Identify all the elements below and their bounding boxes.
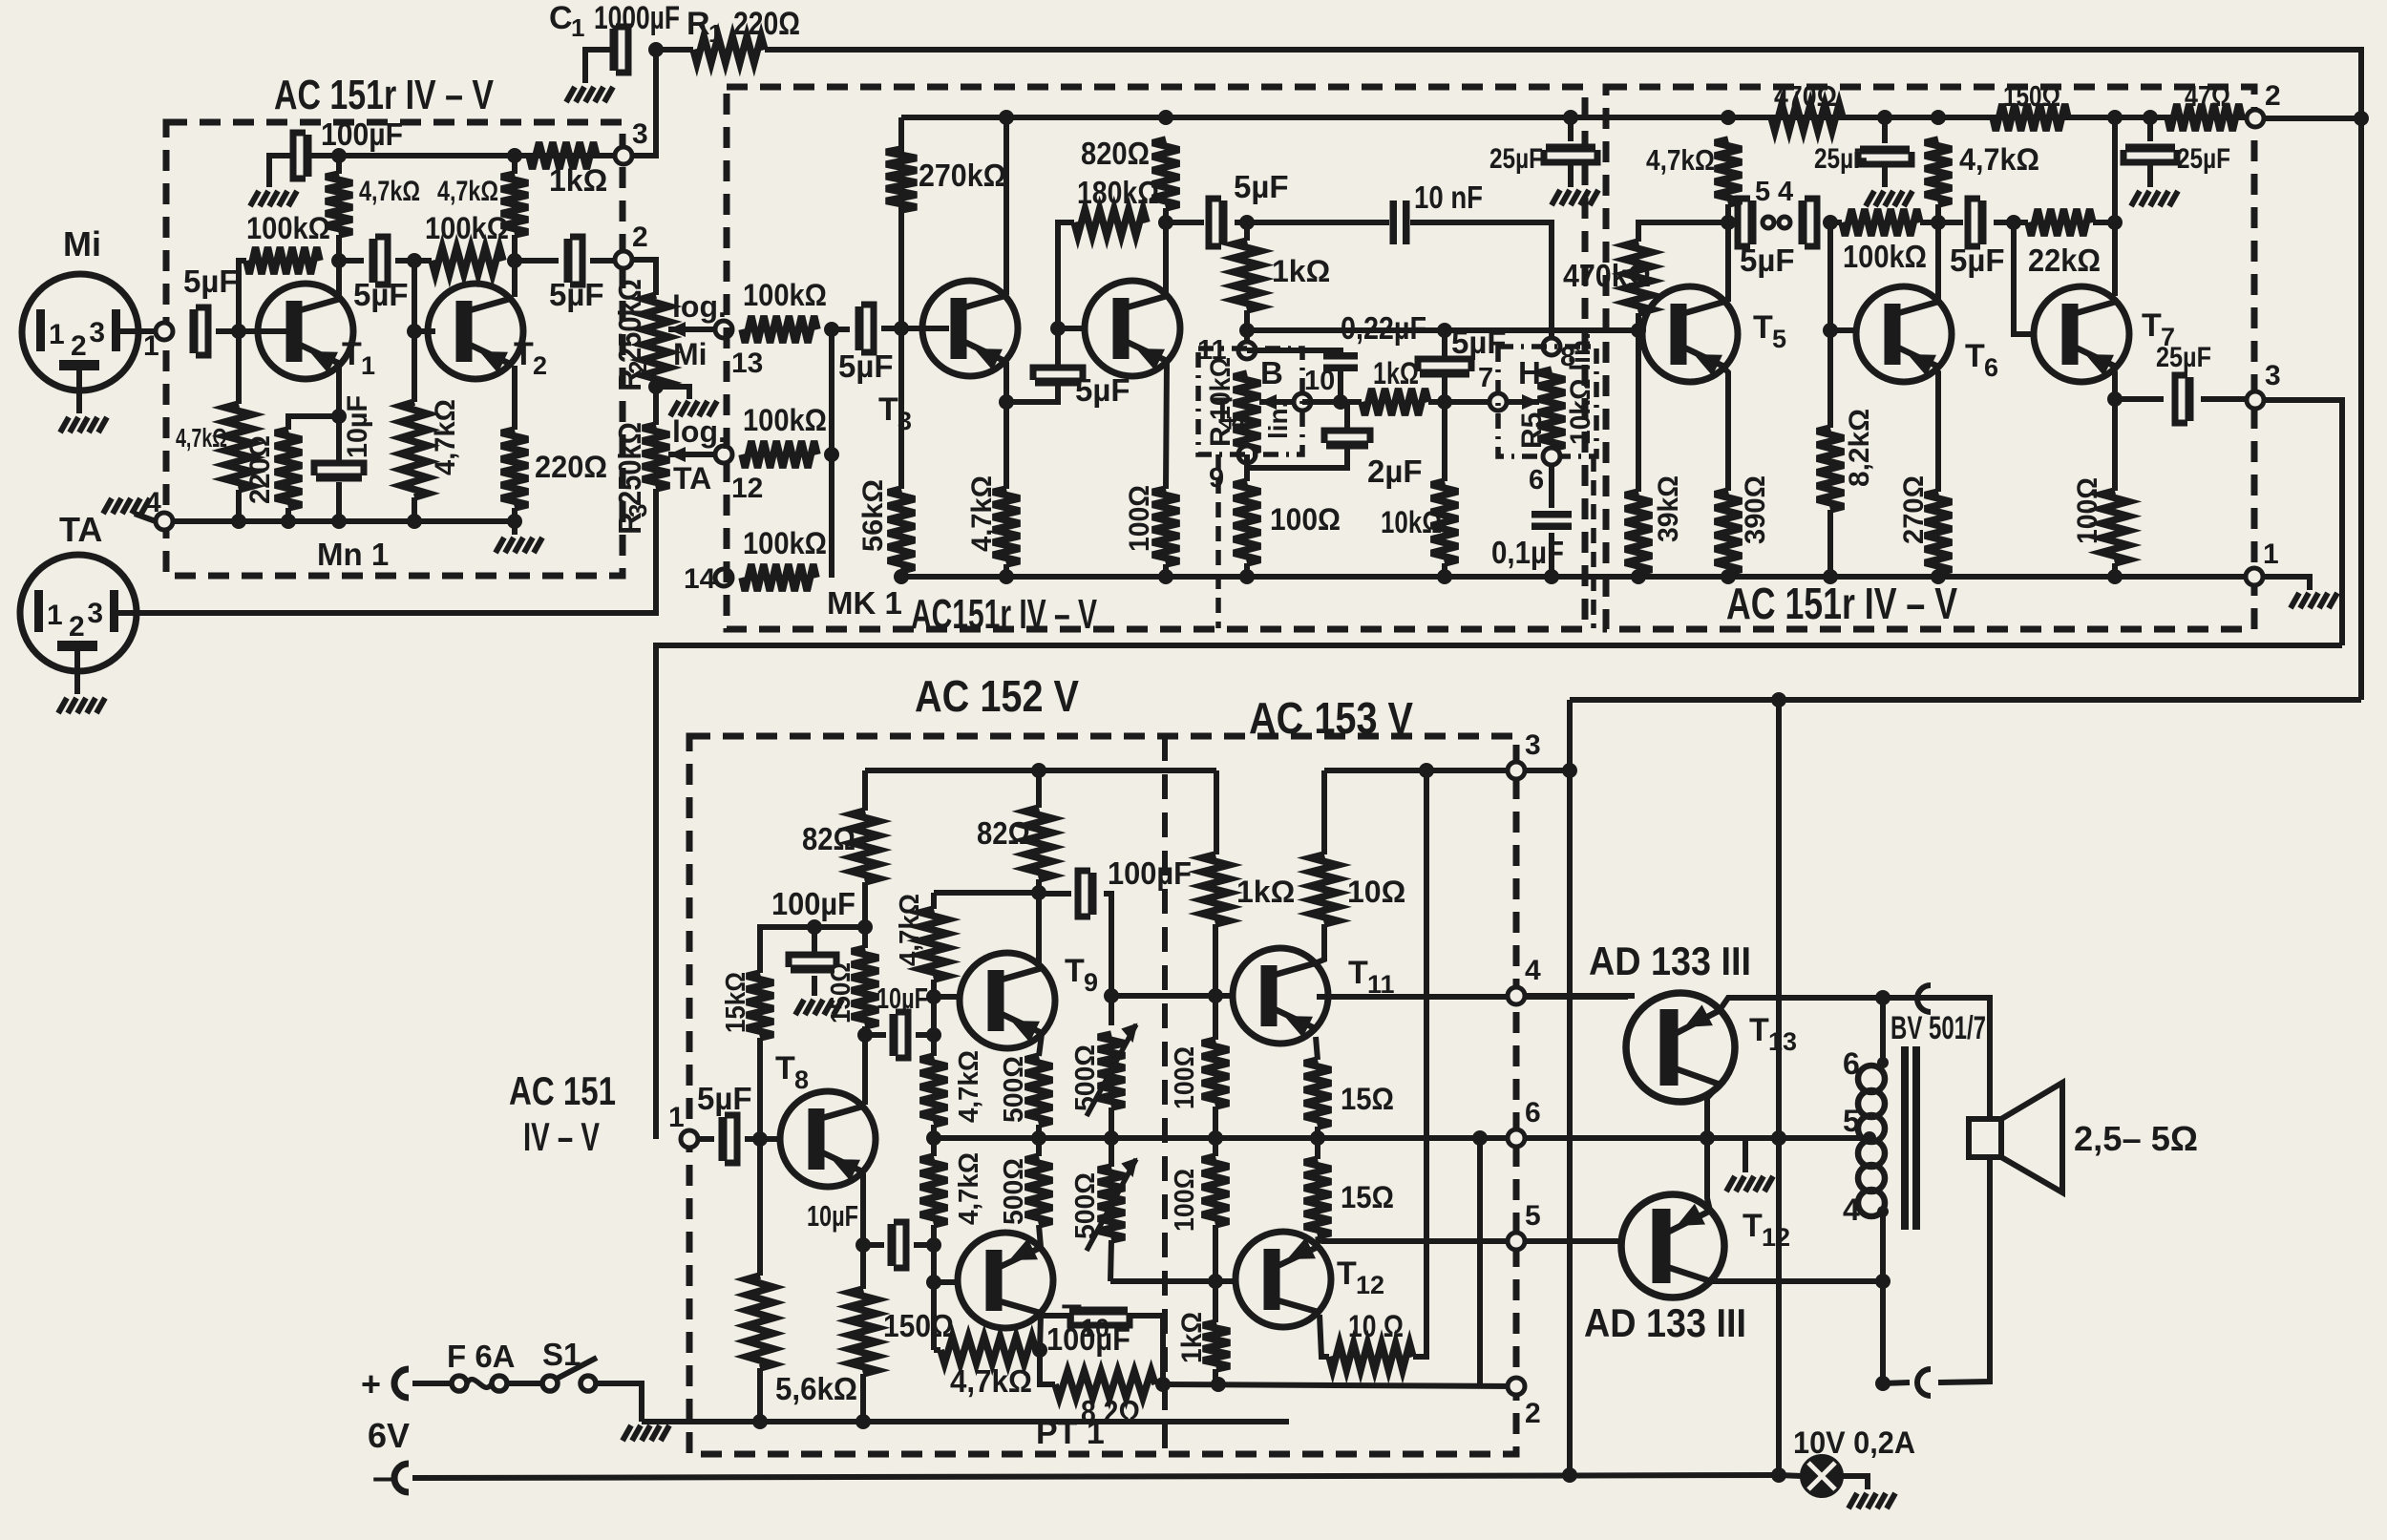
wire 1k tone bottom — [1244, 310, 1250, 350]
node pin 4 — [1779, 217, 1790, 228]
svg-text:100kΩ: 100kΩ — [743, 526, 827, 560]
svg-text:3: 3 — [898, 407, 912, 435]
junction rail 220R T2 — [507, 514, 522, 529]
wire 4k7 to center line — [931, 1125, 937, 1138]
resistor 4,7k T2 base-gnd — [401, 402, 428, 497]
node 3 (box1) — [615, 147, 632, 164]
wiper R4 — [1259, 399, 1295, 405]
node 1 PT1 — [681, 1130, 698, 1148]
wire T4 base wire — [1058, 326, 1085, 331]
junction right edge node2 — [2354, 111, 2369, 126]
wire input cap to T1 base — [216, 328, 292, 334]
resistor 500R T9 — [1025, 1056, 1052, 1125]
wire 25uF2 stem — [1882, 117, 1888, 143]
junction T7 base column top — [2006, 215, 2021, 230]
svg-text:T: T — [878, 391, 898, 428]
svg-text:5: 5 — [1525, 1200, 1541, 1232]
resistor 82R right — [1025, 808, 1052, 879]
resistor 100R upper driver — [1202, 1040, 1229, 1107]
wire PT1 top rail right — [1324, 768, 1570, 773]
wire 100R2 bottom — [1213, 1225, 1218, 1281]
wire trim1 bottom lead — [1109, 1108, 1114, 1138]
wire 4k7 bottom left lead — [934, 1347, 940, 1353]
capacitor 10uF T8-T9 — [890, 1014, 898, 1056]
svg-text:AC 151r IV – V: AC 151r IV – V — [1726, 579, 1957, 628]
junction rail 10R2 riser — [1419, 763, 1434, 778]
connector Mi (DIN) ground — [60, 417, 107, 432]
wire node4 ground stem — [135, 514, 156, 521]
node 6 PT1 — [1508, 1129, 1525, 1147]
resistor 10R lower — [1329, 1343, 1413, 1370]
svg-text:14: 14 — [684, 563, 716, 595]
wire T9 base col top — [934, 890, 1039, 896]
svg-text:10µF: 10µF — [807, 1199, 858, 1233]
svg-text:15Ω: 15Ω — [1341, 1082, 1394, 1116]
wire node5 to T12out base — [1525, 1238, 1623, 1244]
svg-text:100µF: 100µF — [771, 886, 856, 921]
svg-text:100kΩ: 100kΩ — [743, 403, 827, 437]
wire cap to 22k — [1994, 220, 2028, 225]
svg-text:T: T — [1348, 955, 1368, 991]
wire 100uF left lead — [269, 156, 295, 187]
wire 220R to rail — [512, 508, 518, 521]
junction T1 collector / row273 — [331, 253, 347, 268]
wire T5 collector — [1725, 222, 1731, 302]
junction rail 820R — [1158, 110, 1173, 125]
resistor 15R lower — [1304, 1159, 1331, 1236]
svg-text:220Ω: 220Ω — [244, 435, 276, 504]
junction bottom rail 0.1uF — [1544, 569, 1559, 584]
resistor 1k bass-treble — [1362, 389, 1428, 415]
wire T10 base wire — [934, 1279, 961, 1285]
junction lamp line crossing mid — [1771, 1130, 1786, 1146]
svg-text:820Ω: 820Ω — [1081, 136, 1150, 171]
svg-text:T: T — [1753, 309, 1773, 346]
svg-text:2µF: 2µF — [1367, 454, 1423, 489]
junction bottom rail 100R T7 — [2107, 569, 2123, 584]
svg-text:15Ω: 15Ω — [1341, 1180, 1394, 1214]
junction mix node13 — [824, 322, 839, 337]
svg-text:100Ω: 100Ω — [1170, 1169, 1200, 1232]
junction 10uF2 left — [856, 1237, 871, 1253]
resistor 4,7k T1 collector — [326, 174, 352, 235]
wire speaker loop top — [1938, 998, 1990, 1119]
connector TA (DIN) ground — [58, 698, 105, 713]
svg-text:B: B — [1260, 355, 1283, 390]
resistor 4,7k T2 collector — [501, 174, 528, 235]
node 11 — [1238, 342, 1256, 359]
svg-text:C: C — [549, 0, 573, 36]
junction rail 25uF2 — [1877, 110, 1892, 125]
wire T7 base column — [2014, 222, 2036, 334]
junction 10uF2 tap — [926, 1237, 941, 1253]
svg-text:5µF: 5µF — [549, 277, 604, 312]
junction pin4 riser — [1875, 1274, 1891, 1289]
svg-text:1kΩ: 1kΩ — [1176, 1312, 1208, 1363]
wire T6 emitter — [1934, 369, 1938, 492]
svg-text:3: 3 — [87, 598, 103, 629]
svg-text:T: T — [1749, 1012, 1769, 1048]
node 10 — [1294, 393, 1311, 411]
wire Mi pin3 to node 1 — [118, 328, 159, 334]
ground 25uF MK1 — [1552, 190, 1598, 205]
junction T2 collector row — [507, 253, 522, 268]
svg-text:10µF: 10µF — [342, 395, 373, 458]
svg-text:3: 3 — [89, 317, 105, 348]
resistor R1 220R — [693, 36, 765, 63]
resistor 470k T5 base — [1625, 242, 1652, 313]
wire 15R2 to center — [1315, 1138, 1320, 1159]
junction T6 collector node — [1931, 215, 1946, 230]
node pin 5 — [1763, 217, 1774, 228]
resistor 820R T4 collector — [1152, 139, 1179, 208]
resistor 470R rail — [1771, 104, 1843, 131]
transformer primary coil — [1858, 1065, 1885, 1216]
svg-text:AC 152 V: AC 152 V — [915, 671, 1079, 721]
junction T11 base — [1208, 988, 1223, 1003]
svg-text:4,7kΩ: 4,7kΩ — [437, 176, 498, 207]
junction pin4 bottom — [1875, 1376, 1891, 1391]
wire T6 base column — [1827, 222, 1833, 428]
wire 25uF stem — [1568, 117, 1574, 141]
capacitor 5uF pin4 — [1799, 200, 1807, 244]
wire T9 base column — [931, 893, 937, 909]
svg-text:100Ω: 100Ω — [1270, 502, 1341, 537]
svg-text:BV 501/7: BV 501/7 — [1891, 1010, 1986, 1046]
resistor 1k box1 — [529, 142, 597, 169]
node 3 PT1 — [1508, 762, 1525, 779]
wire right box rail — [1585, 115, 2254, 120]
svg-text:1000µF: 1000µF — [594, 0, 680, 36]
svg-text:500Ω: 500Ω — [1070, 1044, 1101, 1111]
svg-text:7: 7 — [1478, 363, 1493, 393]
capacitor 5uF pin5 — [1748, 200, 1757, 244]
ground below C1 — [566, 87, 613, 102]
screen line below H box — [1591, 456, 1596, 628]
screen line below B box — [1215, 454, 1221, 628]
capacitor C1 1000uF — [610, 29, 619, 71]
capacitor 10uF T1 emitter — [316, 474, 362, 482]
wire T12out emitter up — [1707, 1138, 1710, 1211]
resistor 100R T4 emitter — [1152, 489, 1179, 564]
wire row273 T1coll to cap — [339, 258, 364, 264]
wire 270R to rail — [1935, 573, 1941, 577]
svg-text:1: 1 — [47, 600, 63, 631]
transistor T12 AD133 — [1621, 1194, 1724, 1297]
svg-text:T: T — [2142, 307, 2162, 344]
wire fb riser — [1477, 1138, 1483, 1385]
junction T2 base node top — [407, 253, 422, 268]
wire node11 to 0.22uF — [1247, 350, 1341, 353]
wire 5uF to T8 base — [745, 1136, 780, 1142]
svg-text:470Ω: 470Ω — [1774, 79, 1837, 113]
junction rail 5k6 — [752, 1414, 768, 1429]
svg-text:1kΩ: 1kΩ — [549, 163, 607, 198]
wire T7 emitter — [2111, 369, 2115, 491]
svg-text:100µF: 100µF — [321, 116, 403, 152]
node 1 (box1 input) — [156, 323, 173, 340]
wire lamp supply line — [1776, 700, 1782, 1475]
node 1 right box — [2246, 568, 2263, 585]
wire T7 collector — [2112, 117, 2118, 296]
wire 25uF2 gnd — [1882, 166, 1888, 187]
resistor 150R T8 collector — [852, 948, 878, 1026]
wire T6 base wire — [1830, 327, 1856, 333]
capacitor 2uF bass — [1326, 441, 1368, 450]
wire T9 base wire — [934, 994, 961, 1000]
wire 10R2 riser — [1413, 770, 1426, 1357]
wire 100uF stem — [812, 927, 817, 952]
junction center line fb riser — [1472, 1130, 1488, 1146]
junction R2 bottom — [648, 379, 664, 394]
wire trim2 top — [1109, 1138, 1114, 1167]
transistor T3 — [922, 281, 1018, 376]
wire 100uF2 left — [1039, 891, 1071, 897]
ground node1 right box — [2291, 593, 2337, 608]
wire 5,6k column — [757, 1139, 763, 1276]
svg-text:15kΩ: 15kΩ — [721, 972, 751, 1033]
junction T7 collector node — [2107, 215, 2123, 230]
svg-text:4,7kΩ: 4,7kΩ — [954, 1050, 984, 1123]
junction T3 emitter / 5uF — [999, 394, 1014, 410]
wire 100k to T6 coll node — [1920, 220, 1963, 225]
transformer core — [1905, 1046, 1916, 1230]
transistor T4 — [1085, 281, 1180, 376]
resistor 100R T7 emitter — [2102, 491, 2128, 563]
wire node10 line — [1302, 399, 1362, 405]
wire trim2 bottom — [1110, 1240, 1111, 1281]
wire C1 junction to R1 — [656, 47, 693, 53]
svg-text:lin.: lin. — [1263, 401, 1293, 439]
svg-text:T: T — [1743, 1208, 1763, 1244]
wire T9 base column mid — [931, 980, 937, 1056]
wire 25uF to gnd — [1568, 164, 1574, 187]
junction 5uF NF tap — [1437, 323, 1452, 338]
capacitor 25uF rail mid — [1860, 146, 1910, 155]
transistor T2 — [428, 284, 523, 379]
svg-text:1kΩ: 1kΩ — [1373, 356, 1419, 390]
capacitor 5uF PT1 input — [719, 1117, 728, 1161]
wire 500R T10 to emitter — [1039, 1225, 1041, 1247]
wire 39k column — [1636, 330, 1641, 492]
resistor 500R T10 — [1025, 1156, 1052, 1225]
wire T3 collector — [1003, 117, 1009, 295]
svg-text:13: 13 — [731, 348, 763, 379]
wire out cap to node 2 — [590, 258, 619, 264]
wire 1k tone — [1244, 222, 1250, 241]
capacitor 100uF T9 — [1088, 873, 1097, 915]
wire mix to 5uF — [832, 327, 850, 332]
potentiometer R5 10k lin — [1538, 369, 1565, 449]
svg-text:T: T — [342, 336, 362, 372]
wire 10uF to rail — [336, 482, 342, 521]
svg-text:4,7kΩ: 4,7kΩ — [359, 176, 420, 207]
svg-text:2: 2 — [632, 222, 648, 253]
svg-text:3: 3 — [1525, 729, 1541, 761]
svg-text:Mi: Mi — [63, 224, 101, 264]
wire 150R to bottom rail — [860, 1374, 866, 1422]
ground 100uF T8 — [795, 1000, 842, 1015]
resistor 15R upper — [1304, 1060, 1331, 1127]
svg-text:5: 5 — [1772, 325, 1786, 353]
junction lamp line on line B — [1771, 692, 1786, 707]
svg-text:5µF: 5µF — [1234, 169, 1289, 204]
junction T2 base node — [407, 324, 422, 339]
junction rail line B — [1562, 763, 1577, 778]
svg-text:270kΩ: 270kΩ — [919, 158, 1006, 193]
svg-text:100µF: 100µF — [1046, 1321, 1130, 1357]
junction top row at T1 — [331, 148, 347, 163]
svg-text:5µF: 5µF — [697, 1081, 752, 1116]
svg-text:9: 9 — [1084, 968, 1098, 997]
svg-text:25µF: 25µF — [2177, 143, 2230, 175]
fuse F 6A — [452, 1376, 467, 1391]
wire midline ground stub — [1743, 1138, 1748, 1172]
svg-text:4,7kΩ: 4,7kΩ — [954, 1152, 984, 1225]
svg-text:270Ω: 270Ω — [1898, 475, 1930, 544]
resistor 100R lower driver — [1202, 1156, 1229, 1225]
wire 8k2 to rail — [1827, 510, 1833, 577]
junction bottom rail 39k — [1631, 569, 1646, 584]
svg-text:5µF: 5µF — [838, 348, 894, 384]
svg-text:25µF: 25µF — [1489, 143, 1543, 175]
capacitor 5uF T6-T7 — [1978, 200, 1987, 244]
ground output midpoint — [1726, 1176, 1773, 1192]
node 12 — [715, 446, 732, 463]
svg-text:AC 151r IV – V: AC 151r IV – V — [274, 72, 495, 118]
junction minus line lamp — [1771, 1467, 1786, 1483]
svg-text:3: 3 — [632, 118, 648, 150]
wire speaker loop bottom right — [1938, 1157, 1990, 1382]
resistor 270k T3 bias — [886, 149, 917, 210]
wire T2 base 4k7 to rail — [412, 497, 417, 521]
junction bottom rail 10k NF — [1437, 569, 1452, 584]
wire 4k7T5 to T5 coll node — [1725, 204, 1731, 300]
lamp 10V 0,2A — [1802, 1456, 1842, 1496]
capacitor 10uF T8-T10 — [888, 1224, 897, 1266]
wire plus to fuse — [412, 1381, 454, 1386]
ground T2 emitter — [496, 538, 542, 553]
wire 4k7 to gnd rail — [236, 490, 242, 521]
box H (treble pot screen) — [1498, 347, 1596, 456]
resistor 82R bottom — [1055, 1371, 1155, 1398]
junction T6 base column top — [1823, 215, 1838, 230]
svg-text:AD 133 III: AD 133 III — [1584, 1300, 1746, 1345]
wire 10uF2 wire — [863, 1242, 884, 1248]
wire T11 emitter line — [1317, 994, 1628, 1000]
capacitor 25uF MK1 rail — [1546, 144, 1595, 153]
junction T8 base node — [752, 1131, 768, 1147]
svg-text:F 6A: F 6A — [447, 1339, 516, 1374]
transistor T11 — [1233, 948, 1328, 1044]
svg-text:100kΩ: 100kΩ — [1843, 239, 1927, 274]
svg-text:0,22µF: 0,22µF — [1341, 310, 1426, 346]
resistor 10R driver upper — [1311, 854, 1338, 924]
wiper R3 — [668, 452, 719, 457]
svg-text:150Ω: 150Ω — [2003, 79, 2060, 113]
junction rail 4k7 T5 — [1721, 110, 1736, 125]
svg-text:390Ω: 390Ω — [1740, 475, 1771, 544]
terminal C upper — [1917, 985, 1931, 1012]
svg-text:1: 1 — [668, 1102, 685, 1133]
wire 10uF2 to T10 col — [914, 1242, 934, 1248]
wire switch to ground corner — [594, 1383, 642, 1422]
junction T4 collector node — [1158, 215, 1173, 230]
svg-text:8,2kΩ: 8,2kΩ — [1844, 409, 1875, 487]
wire T1 collector up — [336, 235, 342, 297]
transistor T5 — [1642, 286, 1738, 382]
wire 1k4 bottom — [1213, 1369, 1218, 1384]
resistor 150R T8 emitter — [850, 1289, 877, 1374]
svg-text:100kΩ: 100kΩ — [425, 211, 509, 245]
terminal C lower — [1917, 1369, 1931, 1396]
resistor 150R rail — [1993, 104, 2068, 131]
ground main chassis — [623, 1425, 669, 1441]
capacitor 25uF output — [2186, 377, 2194, 421]
wire pin4 riser — [1880, 1212, 1886, 1383]
junction T10 base — [926, 1275, 941, 1290]
transistor T12 driver — [1236, 1232, 1331, 1327]
junction center line trim col — [1104, 1130, 1119, 1146]
node 8 — [1543, 338, 1560, 355]
junction rail 4k7 T6 — [1931, 110, 1946, 125]
svg-text:150Ω: 150Ω — [826, 962, 856, 1023]
svg-text:2: 2 — [533, 351, 547, 380]
svg-text:220Ω: 220Ω — [733, 6, 800, 42]
junction 82R/100uF3 — [1155, 1377, 1171, 1392]
box AC151r IV-V input preamp Mn1 — [166, 122, 623, 576]
wire T5 emitter — [1724, 369, 1728, 491]
switch S1 — [542, 1376, 558, 1391]
wire 10uF1 to T9 col — [916, 1032, 934, 1038]
trimmer arrow upper — [1087, 1024, 1136, 1116]
svg-text:4: 4 — [1525, 955, 1541, 986]
svg-text:25µF: 25µF — [1814, 143, 1868, 175]
resistor 4,7k T9 bottom — [920, 1056, 947, 1125]
junction T4 base node — [1050, 321, 1066, 336]
resistor 4,7k T1 base-gnd — [225, 404, 252, 490]
node 14 — [715, 569, 732, 586]
wire line A (node3 to power amp input) — [656, 645, 2342, 1139]
svg-text:MK 1: MK 1 — [827, 585, 902, 621]
wire T9 collector — [1036, 893, 1042, 967]
svg-text:6: 6 — [1525, 1097, 1541, 1129]
resistor 4,7k T6 collector — [1925, 139, 1952, 204]
svg-text:10µF: 10µF — [877, 981, 928, 1015]
svg-text:4: 4 — [1778, 177, 1793, 207]
junction center line AD133 emitters — [1700, 1130, 1715, 1146]
capacitor 5uF tone feed — [1219, 200, 1228, 244]
svg-text:25µF: 25µF — [2156, 342, 2211, 373]
junction rail 150R — [856, 1414, 871, 1429]
battery minus terminal — [394, 1464, 409, 1492]
svg-text:10Ω: 10Ω — [1347, 875, 1405, 909]
wire T2 collector up — [512, 235, 518, 297]
svg-text:log.: log. — [672, 289, 727, 324]
capacitor 25uF rail right — [2125, 144, 2175, 153]
wire 4k7 T3 to rail — [1003, 564, 1009, 577]
wire 82R2 top — [1036, 770, 1042, 808]
wire 5uF NF bottom lead — [1442, 376, 1447, 481]
svg-text:1: 1 — [708, 19, 722, 48]
junction bottom rail 270R — [1931, 569, 1946, 584]
svg-text:22kΩ: 22kΩ — [2028, 243, 2101, 278]
wire PT1 top rail left — [865, 768, 1216, 773]
junction 470k bottom — [1631, 323, 1646, 338]
svg-text:1: 1 — [571, 13, 584, 42]
wire node9 down 100R — [1244, 463, 1250, 481]
svg-text:1kΩ: 1kΩ — [1272, 254, 1330, 288]
